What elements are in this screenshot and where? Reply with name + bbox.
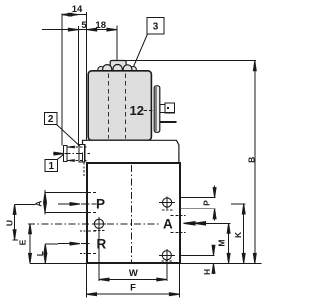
mounting plate (chamfered top-right) (83, 140, 179, 162)
svg-text:18: 18 (95, 20, 106, 31)
DIN connector plug head with screw dot (165, 103, 175, 113)
DIN connector flange (154, 86, 160, 133)
solenoid coil body (88, 71, 151, 141)
svg-text:U: U (4, 220, 14, 226)
svg-text:R: R (97, 237, 107, 252)
svg-text:W: W (129, 268, 138, 279)
mounting hole top right (circle, crosshair, thread dash) (163, 198, 172, 207)
port A flow arrow (double head) with tail to M dimension (184, 222, 196, 225)
svg-text:L: L (35, 251, 45, 256)
svg-text:K: K (233, 231, 243, 238)
bottom-right hole centerline extension (for H) (181, 254, 214, 256)
svg-text:E: E (18, 239, 28, 245)
svg-text:H: H (202, 269, 212, 275)
dimension W (hole spacing) with extension lines (98, 231, 100, 281)
svg-text:M: M (217, 240, 227, 247)
coil centerline (extension for dim 18) (116, 26, 118, 164)
extension line from cap top for dimension B (126, 60, 256, 62)
svg-text:1: 1 (49, 161, 55, 172)
dimension 5 (line with outside arrow, text) (42, 29, 78, 31)
dimension H (hole centerline to bottom, outside arrows) (181, 254, 215, 256)
DIN connector plug neck (160, 104, 165, 112)
svg-text:14: 14 (72, 4, 83, 15)
solenoid coil top washer balls (103, 65, 112, 74)
port P flow arrow and centerline (58, 203, 72, 205)
dimension F (body width) with extension lines (86, 263, 88, 297)
override housing inner step and hidden continuation (82, 153, 84, 163)
solenoid coil top nut (110, 61, 126, 72)
extension line at x=78 (override housing face) (77, 26, 79, 146)
svg-text:5: 5 (81, 20, 87, 31)
valve body vertical centerline (dash-dot) (131, 165, 133, 262)
svg-text:A: A (163, 217, 173, 232)
svg-text:12: 12 (130, 103, 144, 118)
dimension E (hole centerline to bottom) (29, 224, 31, 264)
body bottom edge extension line (left) (30, 262, 87, 264)
port R opening (dashed lines, hatch, letter R) (88, 230, 97, 232)
svg-text:3: 3 (153, 22, 159, 33)
coil hidden armature lines (dashed) (108, 74, 110, 139)
svg-text:B: B (246, 157, 256, 163)
callout 2 (box, text, leader to override housing) (45, 113, 57, 125)
svg-text:A: A (33, 201, 43, 207)
body bottom edge extension line (right) (181, 262, 262, 264)
port R flow arrow and centerline (58, 243, 72, 245)
dimension M (A centerline to bottom) (228, 223, 230, 263)
override travel arrows (68, 146, 75, 148)
svg-text:P: P (201, 200, 211, 206)
callout 1 (box, text, leader to override button) (45, 159, 57, 171)
mounting hole left (circle, crosshair, thread dash) (94, 219, 103, 228)
dimension P (right side, outside arrows) (180, 197, 216, 199)
dimension B (overall height) (254, 61, 256, 264)
dimension L (R centerline to bottom) (45, 243, 58, 245)
dimension U (P to R centerline spacing) (15, 203, 36, 205)
override centerline (dash-dot) with push arrow (53, 153, 90, 155)
hole/A-port centerline (dash-dot across body) (28, 223, 91, 225)
dimension 18 (line, arrows, text) (87, 29, 117, 31)
mounting hole bottom right (circle, crosshair, thread dash) (162, 251, 171, 260)
valve body outline (86, 162, 181, 264)
svg-text:F: F (130, 283, 136, 294)
dimension A (port P height, left side) (45, 191, 87, 193)
port A opening (dashed lines, hatch, letter A) (171, 214, 180, 216)
solenoid coil top cap outer bumps (98, 67, 104, 73)
callout 3 (box, text, leader to coil) (147, 18, 164, 35)
svg-text:P: P (96, 197, 105, 212)
override travel dashed lines (67, 146, 87, 148)
dimension 14 (line, arrows, text) (62, 14, 87, 16)
dimension K (hole centerline to bottom) (231, 203, 246, 205)
port P opening (dashed lines, hatch, letter P) (88, 191, 97, 193)
manual override button (64, 146, 68, 162)
extension line from manual-override tip (61, 14, 63, 146)
extension line at valve body left edge (86, 12, 88, 140)
manual override housing block (79, 145, 85, 163)
svg-text:2: 2 (48, 114, 54, 125)
DIN connector lower terminal pin (160, 121, 177, 123)
